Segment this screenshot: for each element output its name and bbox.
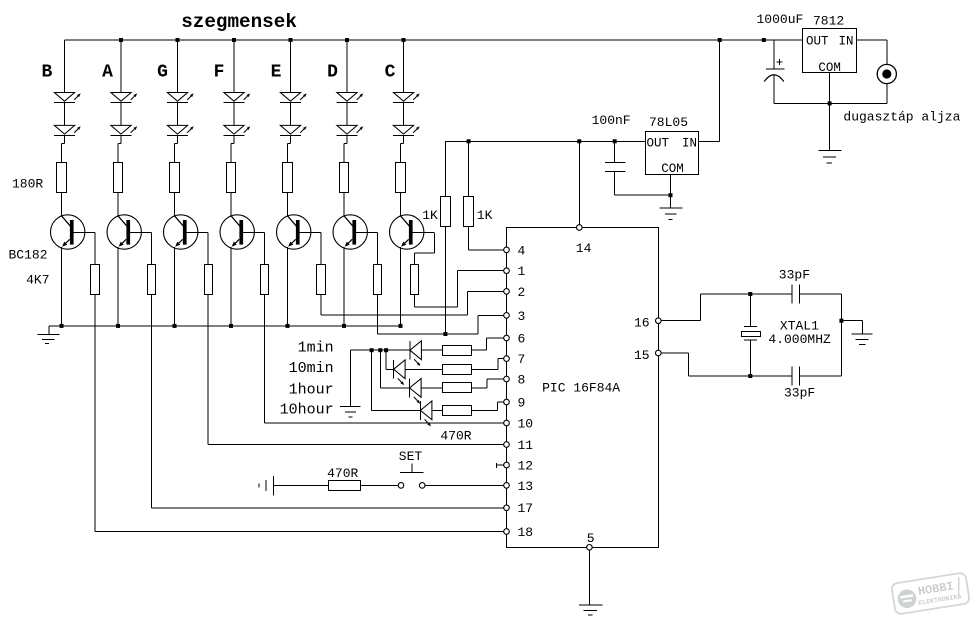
svg-text:78L05: 78L05 — [649, 115, 688, 130]
svg-text:IN: IN — [838, 35, 853, 49]
svg-text:470R: 470R — [327, 466, 358, 481]
svg-text:4K7: 4K7 — [26, 273, 49, 288]
svg-text:COM: COM — [661, 162, 684, 176]
svg-text:10hour: 10hour — [280, 402, 334, 419]
svg-text:470R: 470R — [440, 429, 471, 444]
svg-text:OUT: OUT — [806, 35, 829, 49]
svg-text:5: 5 — [587, 531, 595, 546]
svg-text:E: E — [271, 63, 282, 83]
svg-text:SET: SET — [399, 449, 423, 464]
svg-text:14: 14 — [576, 241, 592, 256]
svg-text:7812: 7812 — [813, 14, 844, 29]
svg-text:4: 4 — [518, 243, 526, 258]
svg-text:9: 9 — [518, 395, 526, 410]
svg-text:4.000MHZ: 4.000MHZ — [768, 332, 831, 347]
svg-text:1min: 1min — [298, 340, 334, 357]
svg-text:1K: 1K — [477, 208, 493, 223]
svg-text:BC182: BC182 — [9, 248, 48, 263]
svg-text:13: 13 — [518, 479, 534, 494]
svg-text:D: D — [327, 63, 338, 83]
svg-text:1hour: 1hour — [289, 382, 334, 399]
svg-text:6: 6 — [518, 331, 526, 346]
svg-text:G: G — [157, 63, 168, 83]
svg-text:C: C — [385, 63, 396, 83]
svg-text:F: F — [214, 63, 225, 83]
svg-text:szegmensek: szegmensek — [181, 11, 297, 33]
svg-text:IN: IN — [682, 137, 697, 151]
svg-text:33pF: 33pF — [784, 386, 815, 401]
svg-text:180R: 180R — [12, 176, 43, 191]
svg-text:PIC 16F84A: PIC 16F84A — [542, 380, 620, 395]
svg-text:1000uF: 1000uF — [757, 12, 804, 27]
svg-text:3: 3 — [518, 309, 526, 324]
svg-text:16: 16 — [634, 316, 650, 331]
svg-text:10min: 10min — [289, 360, 334, 377]
svg-text:7: 7 — [518, 352, 526, 367]
svg-text:33pF: 33pF — [779, 268, 810, 283]
svg-text:15: 15 — [634, 348, 650, 363]
svg-text:12: 12 — [518, 458, 534, 473]
svg-text:18: 18 — [518, 525, 534, 540]
svg-text:2: 2 — [518, 285, 526, 300]
svg-text:1K: 1K — [422, 208, 438, 223]
svg-text:B: B — [41, 63, 52, 83]
svg-text:8: 8 — [518, 372, 526, 387]
svg-text:11: 11 — [518, 438, 534, 453]
svg-text:OUT: OUT — [647, 137, 670, 151]
svg-text:10: 10 — [518, 416, 534, 431]
svg-text:1: 1 — [518, 264, 526, 279]
svg-text:100nF: 100nF — [592, 113, 631, 128]
svg-text:A: A — [102, 63, 113, 83]
svg-text:dugasztáp aljza: dugasztáp aljza — [843, 109, 960, 124]
svg-text:17: 17 — [518, 501, 534, 516]
